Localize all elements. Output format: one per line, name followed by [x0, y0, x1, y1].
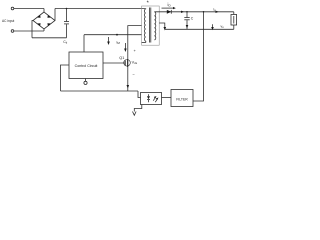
feedback wire into opto	[138, 91, 141, 98]
feedback tap wire	[193, 12, 204, 101]
AC input terminal bottom	[11, 30, 14, 33]
drain current arrow	[124, 43, 127, 52]
wire	[14, 30, 44, 32]
control circuit box	[69, 52, 103, 79]
diode D	[167, 10, 172, 14]
capacitor Cd	[64, 9, 69, 38]
control bottom connector	[84, 79, 87, 85]
junction dot	[186, 11, 188, 13]
AC input terminal top	[11, 7, 14, 10]
svg-text:Q1: Q1	[119, 56, 124, 60]
svg-text:C: C	[191, 17, 194, 21]
ground stub	[134, 105, 142, 112]
drain wire	[128, 26, 142, 59]
junction dot	[66, 8, 68, 10]
transformer T1	[142, 8, 156, 43]
control circuit top wire	[83, 35, 85, 52]
svg-text:Control Circuit: Control Circuit	[75, 64, 98, 68]
current arrowhead	[181, 11, 184, 13]
output current arrow io	[216, 11, 219, 13]
magnetizing current arrow iM	[107, 37, 110, 45]
iD arrow	[162, 7, 176, 9]
wire	[14, 8, 44, 10]
opto filter wire	[162, 97, 172, 99]
svg-text:FILTER: FILTER	[176, 98, 188, 102]
bridge rectifier	[32, 9, 55, 38]
output voltage arrow vo	[211, 24, 214, 30]
svg-text:Vds: Vds	[132, 61, 138, 66]
optocoupler box	[141, 93, 162, 105]
optocoupler U1	[147, 94, 159, 102]
output return rail	[165, 28, 234, 30]
output capacitor C	[184, 12, 189, 30]
secondary current arrow	[159, 23, 166, 31]
load	[231, 12, 237, 30]
svg-text:+: +	[134, 48, 137, 53]
feedback input wire	[61, 65, 70, 91]
svg-text:iM: iM	[117, 40, 121, 46]
junction dot	[116, 34, 118, 36]
transistor Q1	[103, 59, 130, 92]
primary rail	[84, 34, 142, 36]
output rail	[154, 11, 233, 13]
FILTER box	[171, 90, 193, 107]
svg-text:iD: iD	[168, 2, 172, 8]
svg-text:−: −	[133, 72, 136, 77]
ground rail	[61, 90, 139, 92]
DC plus rail	[55, 8, 146, 10]
svg-text:*: *	[147, 1, 150, 7]
source current arrow	[127, 85, 130, 89]
ground arrow	[133, 112, 137, 116]
svg-text:Cd: Cd	[63, 40, 68, 45]
transformer box	[142, 6, 160, 45]
svg-text:AC input: AC input	[2, 19, 14, 23]
DC minus wire	[32, 37, 67, 39]
junction dot	[203, 11, 205, 13]
svg-text:vo: vo	[221, 25, 225, 30]
